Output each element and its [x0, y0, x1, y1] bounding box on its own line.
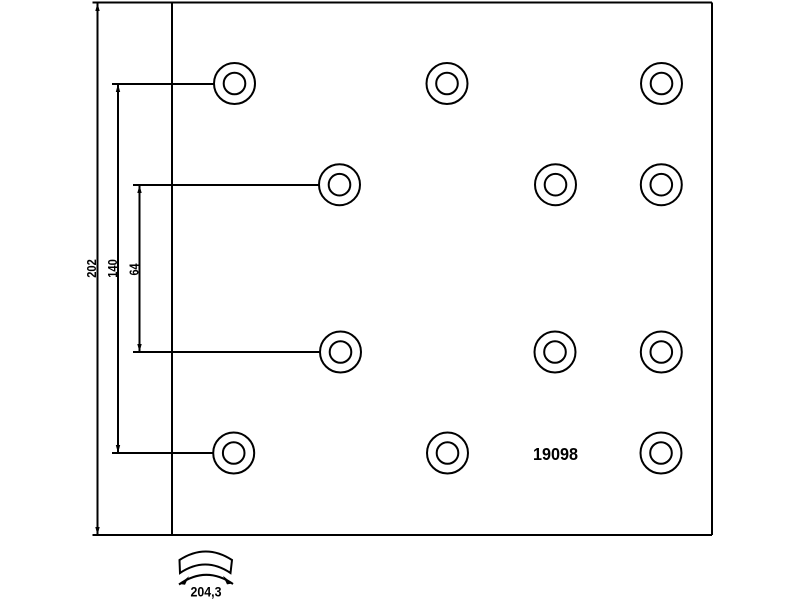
arrowhead 202 top	[95, 3, 99, 11]
brake lining outline left edge	[171, 3, 173, 536]
brake lining outline top edge	[93, 2, 713, 4]
rivet hole r4c3	[641, 433, 682, 474]
svg-text:19098: 19098	[533, 444, 578, 464]
arrowhead 64 bottom	[137, 344, 141, 352]
arrowhead arc right	[223, 576, 233, 585]
dimension line 140	[117, 84, 119, 453]
side view outer arc and body	[180, 552, 233, 574]
leader line hole row1	[112, 83, 215, 85]
arc dimension line 204,3	[179, 575, 233, 585]
svg-text:140: 140	[105, 259, 120, 278]
dimension line 64	[139, 185, 141, 352]
svg-text:202: 202	[84, 259, 99, 278]
rivet hole r2c2	[535, 164, 576, 205]
arrowhead 64 top	[137, 185, 141, 193]
rivet hole r1c2	[427, 63, 468, 104]
arrowhead 202 bottom	[95, 527, 99, 535]
arrowhead arc left	[180, 576, 190, 585]
dimension line 202	[97, 3, 99, 535]
svg-text:204,3: 204,3	[191, 585, 222, 600]
rivet hole r3c2	[535, 332, 576, 373]
rivet hole r4c2	[427, 433, 468, 474]
leader line hole row2	[133, 184, 320, 186]
rivet hole r1c3	[641, 63, 682, 104]
rivet hole r4c1	[213, 433, 254, 474]
rivet hole r3c1	[320, 332, 361, 373]
rivet hole r2c3	[641, 164, 682, 205]
rivet hole r2c1	[319, 164, 360, 205]
brake lining outline bottom edge	[93, 534, 713, 536]
rivet hole r3c3	[641, 332, 682, 373]
rivet hole r1c1	[214, 63, 255, 104]
arrowhead 140 bottom	[116, 445, 120, 453]
leader line hole row3	[133, 351, 321, 353]
svg-text:64: 64	[127, 263, 142, 276]
leader line hole row4	[112, 452, 214, 454]
arrowhead 140 top	[116, 84, 120, 92]
brake lining outline right edge	[711, 3, 713, 536]
